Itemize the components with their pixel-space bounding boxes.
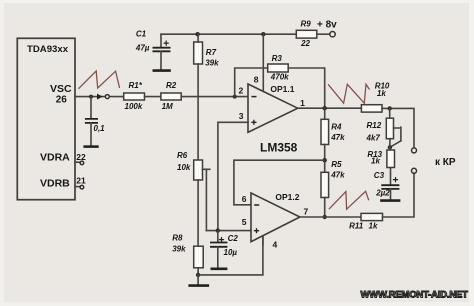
- node at VSC wire / C4 tap: [89, 95, 93, 99]
- resistor R1: [124, 81, 145, 111]
- trimmer R12: [366, 118, 401, 147]
- svg-text:7: 7: [304, 206, 309, 216]
- test point circle: [105, 95, 109, 99]
- C1 plus sign: [164, 41, 169, 46]
- wire R3 to output column: [288, 68, 325, 108]
- wire R13 to C3: [390, 168, 392, 186]
- capacitor C1 lower lead: [160, 51, 162, 70]
- C3 plus sign: [393, 177, 398, 182]
- pin VDRA stub wire: [75, 161, 80, 163]
- feedback wire to pin 6: [234, 160, 325, 205]
- resistor R3: [268, 54, 289, 82]
- svg-text:R6: R6: [177, 151, 188, 160]
- ground bar bottom: [188, 284, 209, 287]
- svg-text:10µ: 10µ: [224, 248, 238, 257]
- node R12/R13: [388, 145, 392, 149]
- svg-text:4k7: 4k7: [366, 134, 381, 143]
- svg-text:8: 8: [254, 74, 259, 84]
- wire pin2 node up to R3: [235, 68, 268, 97]
- svg-text:470k: 470k: [270, 72, 289, 81]
- bias node dot: [216, 228, 220, 232]
- signal direction arrow: [97, 94, 103, 100]
- ground bar under C4: [83, 145, 98, 148]
- R6 tap tick: [203, 168, 210, 170]
- svg-text:2µ2: 2µ2: [375, 189, 390, 198]
- svg-text:1k: 1k: [371, 157, 380, 166]
- output terminal upper circle: [412, 148, 417, 153]
- wire R4 to R5: [324, 145, 326, 173]
- svg-text:1k: 1k: [377, 89, 386, 98]
- sawtooth waveform at VSC (red): [78, 71, 119, 89]
- svg-text:6: 6: [242, 194, 247, 204]
- svg-text:R12: R12: [367, 121, 382, 130]
- wire OP1.2 output: [300, 216, 361, 218]
- resistor R13: [367, 150, 394, 168]
- ground node dot: [196, 273, 200, 277]
- resistor R7: [194, 42, 219, 67]
- node R10/R12: [388, 106, 392, 110]
- svg-text:R3: R3: [272, 54, 283, 63]
- resistor R4: [321, 119, 345, 144]
- node R4/R5 feedback: [323, 158, 327, 162]
- +8V supply rail: [161, 33, 296, 35]
- output terminal lower circle: [412, 168, 417, 173]
- resistor R10: [361, 82, 390, 113]
- wire R4 column from output node: [324, 108, 326, 119]
- svg-text:TDA93xx: TDA93xx: [27, 44, 69, 55]
- svg-text:3: 3: [239, 111, 244, 121]
- pin 4 wire: [262, 236, 264, 245]
- plus sign pin 5: [254, 228, 259, 233]
- pin 5 wire: [206, 230, 251, 232]
- wire R7 top lead: [197, 34, 199, 42]
- wire R7 down to R6 (crosses signal wire): [197, 64, 199, 160]
- capacitor C2 top lead: [217, 231, 219, 242]
- wire R1 to R2: [145, 96, 161, 98]
- wire op-amp1 output: [298, 107, 362, 109]
- svg-text:R2: R2: [166, 81, 177, 90]
- wire R5 to OP1.2 output line: [324, 198, 326, 218]
- capacitor C1 top lead: [160, 34, 162, 47]
- minus sign pin 2: [252, 96, 257, 98]
- svg-text:47k: 47k: [330, 170, 345, 179]
- pin VDRB stub wire: [75, 186, 80, 188]
- R12 wiper: [390, 127, 401, 147]
- svg-text:R4: R4: [331, 123, 342, 132]
- svg-text:к КР: к КР: [435, 157, 456, 168]
- svg-text:39k: 39k: [172, 244, 186, 253]
- C2 plus sign: [219, 237, 224, 242]
- plus sign pin 3: [251, 120, 256, 125]
- capacitor C4 0,1 vertical lead: [90, 97, 92, 119]
- svg-text:5: 5: [242, 217, 247, 227]
- svg-text:+ 8v: + 8v: [317, 20, 337, 31]
- op-amp U1.1 triangle: [248, 84, 298, 132]
- wire pin3 from bias node: [218, 122, 248, 230]
- svg-text:2: 2: [239, 85, 244, 95]
- svg-text:R8: R8: [172, 233, 183, 242]
- svg-text:OP1.2: OP1.2: [275, 192, 299, 202]
- sawtooth waveform at OP1.2 output (red): [329, 191, 369, 209]
- resistor R6: [177, 151, 203, 180]
- ground bar under C1: [153, 69, 171, 72]
- sawtooth waveform at OP1.1 output (red): [328, 84, 369, 103]
- node C1/R7: [195, 32, 199, 36]
- svg-text:VDRB: VDRB: [40, 178, 70, 190]
- svg-text:0,1: 0,1: [94, 124, 106, 133]
- capacitor C4 lower lead: [90, 123, 92, 146]
- svg-text:21: 21: [76, 175, 86, 185]
- resistor R2: [161, 81, 181, 111]
- svg-text:R11: R11: [349, 222, 364, 231]
- svg-text:10k: 10k: [177, 163, 191, 172]
- wire ground node to pin 4 riser: [198, 236, 263, 275]
- svg-text:1M: 1M: [162, 102, 173, 111]
- svg-text:47µ: 47µ: [135, 43, 150, 52]
- IC U1 TDA93xx body: [17, 38, 75, 199]
- ground stem: [197, 275, 199, 285]
- svg-text:VDRA: VDRA: [40, 152, 70, 164]
- svg-text:VSC: VSC: [50, 83, 72, 95]
- svg-text:C3: C3: [374, 171, 385, 180]
- svg-text:R1*: R1*: [129, 81, 143, 90]
- output node dot: [323, 106, 327, 110]
- pin VDRB terminal circle: [80, 185, 84, 189]
- R6 tap vertical wire down to pin5 line: [205, 169, 207, 230]
- capacitor C4 plates: [85, 119, 98, 123]
- svg-text:1k: 1k: [369, 222, 378, 231]
- svg-text:WWW.REMONT-AID.NET: WWW.REMONT-AID.NET: [361, 290, 469, 301]
- capacitor C1 plates: [153, 48, 171, 52]
- resistor R9: [296, 19, 317, 48]
- node pin8 takeoff: [261, 32, 265, 36]
- wire VSC pin 26 to R1: [75, 96, 124, 98]
- minus sign pin 6: [254, 204, 259, 206]
- svg-text:39k: 39k: [205, 58, 219, 67]
- wire R12 top lead: [389, 108, 391, 118]
- capacitor C3 plates: [381, 185, 399, 189]
- svg-text:R9: R9: [301, 19, 312, 28]
- +8v terminal circle: [330, 32, 335, 37]
- ground bar under C3: [380, 199, 400, 202]
- wire R11 to right rail up: [383, 174, 415, 218]
- svg-text:22: 22: [300, 39, 310, 48]
- svg-text:100k: 100k: [125, 102, 143, 111]
- svg-text:26: 26: [56, 95, 68, 106]
- capacitor C2 plates: [210, 243, 227, 247]
- wire R8 to ground node: [197, 268, 199, 275]
- op-amp U1.2 triangle: [251, 192, 300, 242]
- capacitor C3 lower lead: [390, 189, 392, 200]
- node pin2 / R3 junction: [233, 95, 237, 99]
- svg-text:4: 4: [273, 240, 278, 250]
- wire R6 to R8: [197, 180, 199, 246]
- svg-text:47k: 47k: [330, 133, 345, 142]
- svg-text:C2: C2: [228, 234, 239, 243]
- wire R2 to op-amp pin 2: [181, 96, 248, 98]
- node R5/output2: [323, 215, 327, 219]
- wire R9 to +8v terminal: [317, 33, 330, 35]
- resistor R8: [172, 233, 203, 267]
- svg-text:C1: C1: [136, 30, 147, 39]
- pin VDRA terminal circle: [80, 161, 84, 165]
- svg-text:R7: R7: [206, 48, 217, 57]
- wire R10 to right rail: [382, 108, 414, 147]
- svg-text:R5: R5: [331, 160, 342, 169]
- pin 8 wire: [262, 34, 264, 91]
- capacitor C2 lower lead: [217, 247, 219, 268]
- svg-text:LM358: LM358: [260, 141, 298, 155]
- svg-text:1: 1: [300, 98, 305, 108]
- ground bar under C2: [211, 267, 228, 270]
- svg-text:OP1.1: OP1.1: [270, 84, 294, 94]
- resistor R5: [321, 160, 345, 198]
- wire R12 to R13: [389, 139, 391, 150]
- resistor R11: [349, 213, 382, 230]
